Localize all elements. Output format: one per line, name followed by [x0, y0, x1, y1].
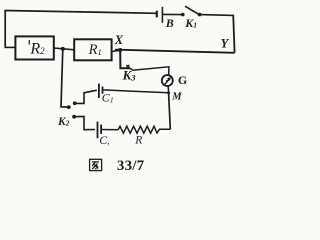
svg-text:C,: C, [99, 133, 109, 147]
svg-text:R1: R1 [88, 42, 102, 58]
svg-text:R2: R2 [29, 40, 45, 57]
svg-text:G: G [178, 73, 187, 87]
svg-text:C1: C1 [102, 91, 114, 105]
svg-text:B: B [165, 16, 174, 30]
svg-text:K2: K2 [57, 116, 70, 128]
svg-text:33/7: 33/7 [117, 158, 145, 174]
svg-text:M: M [171, 91, 182, 102]
svg-text:X: X [114, 33, 124, 47]
svg-text:K1: K1 [184, 16, 197, 30]
svg-text:Y: Y [221, 37, 230, 51]
svg-text:R: R [134, 135, 142, 147]
